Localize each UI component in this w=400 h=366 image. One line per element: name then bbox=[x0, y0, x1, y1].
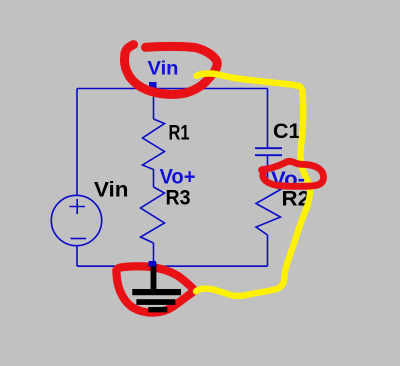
svg-text:Vin: Vin bbox=[148, 59, 179, 80]
svg-text:R1: R1 bbox=[169, 121, 190, 145]
resistor R2 zigzag bbox=[256, 183, 281, 235]
wire middle branch top bbox=[153, 89, 155, 120]
svg-text:Vin: Vin bbox=[94, 179, 129, 202]
capacitor C1 top plate bbox=[255, 147, 282, 149]
voltage source plus sign bbox=[70, 199, 86, 214]
yellow start blob bbox=[195, 72, 202, 79]
ground symbol bar 1 bbox=[132, 289, 181, 295]
resistor R1 zigzag bbox=[143, 119, 165, 172]
svg-text:R3: R3 bbox=[166, 186, 191, 210]
red annotation cloud around Vo- bbox=[262, 161, 324, 186]
node square top (Vin node) bbox=[149, 82, 157, 89]
wire bottom horizontal bbox=[77, 265, 268, 267]
yellow highlighted path Vin to ground bbox=[196, 73, 310, 295]
wire left vertical lower bbox=[76, 246, 78, 266]
wire node Vo+ segment bbox=[153, 172, 155, 187]
wire top horizontal bbox=[77, 88, 268, 90]
voltage source minus sign bbox=[71, 238, 87, 240]
wire middle branch bottom bbox=[153, 243, 155, 266]
wire left vertical upper bbox=[76, 89, 78, 196]
ground symbol bar 2 bbox=[136, 299, 175, 305]
red annotation circle around ground bbox=[116, 266, 194, 312]
wire right middle bbox=[267, 156, 269, 183]
resistor R3 zigzag bbox=[141, 187, 165, 243]
node square bottom (ground node) bbox=[149, 261, 157, 267]
wire right vertical upper bbox=[267, 89, 269, 148]
svg-text:C1: C1 bbox=[273, 120, 301, 143]
ground symbol bar 3 bbox=[148, 307, 167, 312]
red annotation circle around Vin node bbox=[125, 45, 218, 95]
ground symbol stem bbox=[151, 262, 157, 290]
capacitor C1 bottom plate bbox=[255, 154, 282, 156]
wire right vertical lower bbox=[267, 235, 269, 266]
voltage source V1 circle bbox=[51, 195, 101, 245]
